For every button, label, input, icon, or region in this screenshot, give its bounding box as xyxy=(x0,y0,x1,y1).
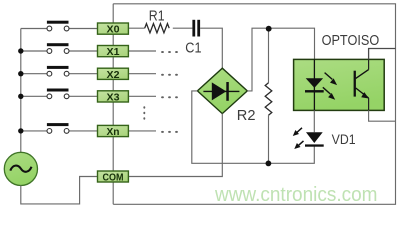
junction node X2 branch xyxy=(18,71,23,76)
switch SW2 xyxy=(47,66,69,76)
svg-text:X3: X3 xyxy=(107,92,120,104)
PLC boundary frame xyxy=(113,4,395,205)
switch SW1 xyxy=(47,43,69,53)
terminal X3 xyxy=(98,91,129,104)
svg-text:OPTOISO: OPTOISO xyxy=(322,33,380,49)
wire row X2 xyxy=(21,73,47,75)
bridge rectifier body xyxy=(197,68,247,113)
optocoupler phototransistor xyxy=(354,59,369,110)
frame left segment through terminals xyxy=(112,4,114,205)
capacitor C1 xyxy=(192,20,200,37)
junction node R2 bottom xyxy=(266,161,272,167)
wire X3 stub with ellipsis xyxy=(128,95,156,97)
switch SW3 xyxy=(47,89,69,99)
vertical ellipsis between X3 and Xn xyxy=(143,106,145,119)
svg-text:Xn: Xn xyxy=(107,126,120,138)
wire row X0 xyxy=(21,28,47,30)
resistor R1 xyxy=(145,24,170,33)
AC source G1 xyxy=(4,152,37,185)
LED VD1 xyxy=(305,110,324,146)
svg-text:R2: R2 xyxy=(237,108,256,124)
junction node R2 top xyxy=(266,26,272,32)
terminal Xn xyxy=(98,125,129,138)
wire Xn stub with ellipsis xyxy=(128,130,156,132)
svg-text:X2: X2 xyxy=(107,69,120,81)
terminal X0 xyxy=(98,23,129,36)
wire row X3 xyxy=(21,95,47,97)
wire C1 to bridge top xyxy=(200,28,222,68)
switch SW0 xyxy=(47,21,69,31)
svg-text:R1: R1 xyxy=(149,8,165,24)
junction node X3 branch xyxy=(18,94,23,99)
wire X1 stub with ellipsis xyxy=(128,50,156,52)
svg-text:C1: C1 xyxy=(185,40,201,56)
terminal COM xyxy=(98,171,129,184)
svg-text:VD1: VD1 xyxy=(332,132,356,147)
wire bridge bottom vertex to COM rail xyxy=(128,114,222,177)
resistor R2 xyxy=(265,28,272,163)
svg-text:X0: X0 xyxy=(107,24,120,36)
wire collector output xyxy=(369,49,396,60)
wire AC source to COM xyxy=(21,177,98,204)
terminal X2 xyxy=(98,68,129,81)
wire X0 to R1 xyxy=(128,27,144,29)
svg-text:www.cntronics.com: www.cntronics.com xyxy=(214,184,377,206)
svg-text:COM: COM xyxy=(103,172,124,184)
wire bridge right vertex to top rail xyxy=(247,28,314,91)
wire R1 to C1 xyxy=(173,27,193,29)
junction node X1 branch xyxy=(18,48,23,53)
terminal X1 xyxy=(98,46,129,59)
wire X2 stub with ellipsis xyxy=(128,73,156,75)
wire bridge left vertex to bottom rail xyxy=(192,91,314,163)
wire row X1 xyxy=(21,50,47,52)
wire emitter output xyxy=(369,110,396,121)
svg-text:X1: X1 xyxy=(107,46,120,58)
optocoupler light arrows xyxy=(323,73,337,100)
left AC bus wire xyxy=(20,29,22,153)
optocoupler body U1 xyxy=(294,59,385,110)
optocoupler LED xyxy=(305,59,324,110)
wire row Xn xyxy=(21,130,47,132)
switch SWn xyxy=(47,123,69,133)
VD1 light arrows xyxy=(293,128,304,149)
bridge diode symbol xyxy=(203,82,239,101)
junction node Xn branch xyxy=(18,128,23,133)
